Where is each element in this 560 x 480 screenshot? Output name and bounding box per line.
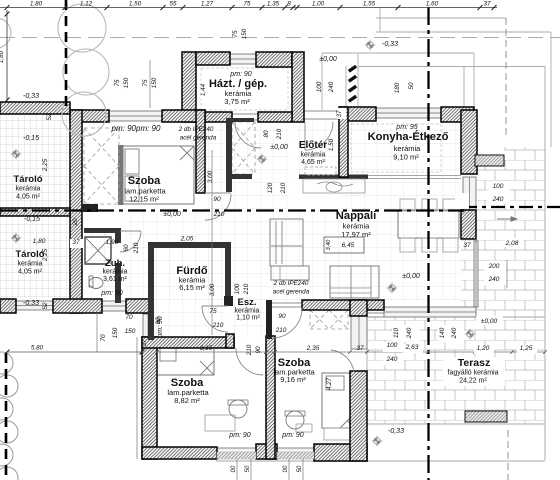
svg-text:37: 37: [72, 239, 80, 246]
svg-text:2 db IPE240: 2 db IPE240: [178, 126, 214, 133]
svg-text:100: 100: [316, 81, 323, 92]
svg-text:180: 180: [394, 82, 401, 93]
svg-text:Szoba: Szoba: [128, 175, 161, 187]
svg-text:±0,00: ±0,00: [319, 56, 337, 63]
svg-text:20: 20: [72, 218, 79, 227]
svg-text:70: 70: [125, 314, 133, 321]
svg-text:100: 100: [493, 183, 504, 190]
svg-text:1,90: 1,90: [106, 239, 119, 246]
svg-text:200: 200: [488, 263, 500, 270]
svg-text:1,80: 1,80: [33, 238, 46, 245]
svg-text:90: 90: [155, 317, 162, 325]
svg-text:75: 75: [243, 1, 251, 8]
svg-text:52: 52: [46, 113, 53, 121]
svg-text:80: 80: [263, 130, 270, 138]
svg-text:37: 37: [141, 339, 148, 347]
svg-text:Zuh.: Zuh.: [105, 258, 125, 269]
svg-text:6,15 m²: 6,15 m²: [179, 283, 205, 292]
svg-text:4,65 m²: 4,65 m²: [301, 159, 325, 166]
svg-text:90: 90: [213, 196, 221, 203]
svg-text:-0,33: -0,33: [388, 428, 404, 435]
svg-text:75: 75: [114, 79, 121, 87]
svg-text:kerámia: kerámia: [301, 152, 326, 159]
svg-text:55: 55: [169, 1, 177, 8]
svg-text:240: 240: [492, 196, 504, 203]
svg-text:fagyálló kerámia: fagyálló kerámia: [448, 370, 499, 377]
svg-text:90: 90: [255, 346, 262, 354]
svg-text:pm: 90: pm: 90: [281, 432, 304, 439]
svg-text:37: 37: [463, 242, 471, 249]
svg-text:37: 37: [483, 1, 491, 8]
svg-text:70: 70: [100, 334, 107, 342]
svg-text:210: 210: [276, 128, 283, 140]
svg-text:5,80: 5,80: [31, 345, 44, 352]
svg-text:2,25: 2,25: [42, 248, 49, 262]
svg-text:Tároló: Tároló: [13, 174, 42, 185]
svg-text:75: 75: [232, 30, 239, 38]
svg-text:75: 75: [142, 79, 149, 87]
svg-text:pm: 90pm: 90: pm: 90pm: 90: [111, 124, 161, 133]
svg-text:1,12: 1,12: [80, 1, 93, 8]
svg-text:-0,33: -0,33: [382, 41, 398, 48]
svg-text:3,00: 3,00: [207, 170, 214, 183]
svg-text:2 db IPE240: 2 db IPE240: [273, 280, 309, 287]
svg-text:150: 150: [125, 328, 136, 335]
svg-text:37: 37: [356, 345, 364, 352]
svg-text:150: 150: [112, 327, 119, 338]
svg-text:1,25: 1,25: [520, 345, 533, 352]
svg-text:pm: 90: pm: 90: [100, 290, 123, 297]
svg-text:pm: 90: pm: 90: [229, 71, 252, 78]
svg-text:1,50: 1,50: [328, 138, 335, 151]
svg-text:4,05 m²: 4,05 m²: [18, 269, 42, 276]
svg-text:3,61 m²: 3,61 m²: [103, 276, 127, 283]
svg-text:1,44: 1,44: [200, 83, 207, 96]
svg-text:140: 140: [439, 327, 446, 338]
svg-text:1,50: 1,50: [129, 1, 142, 8]
svg-text:17,97 m²: 17,97 m²: [341, 230, 371, 239]
svg-text:1,35: 1,35: [267, 1, 280, 8]
svg-text:1,10 m²: 1,10 m²: [236, 315, 260, 322]
svg-text:1,80: 1,80: [30, 1, 43, 8]
svg-text:90: 90: [278, 313, 286, 320]
svg-text:50: 50: [245, 465, 251, 472]
svg-text:210: 210: [133, 242, 140, 254]
svg-text:3,00: 3,00: [209, 283, 216, 296]
svg-text:24,22 m²: 24,22 m²: [459, 378, 487, 385]
svg-text:110: 110: [393, 327, 400, 338]
svg-text:2,05: 2,05: [180, 236, 194, 243]
svg-text:210: 210: [213, 211, 225, 218]
svg-text:1,00: 1,00: [312, 1, 325, 8]
svg-text:37: 37: [336, 110, 343, 118]
svg-text:kerámia: kerámia: [235, 308, 260, 315]
svg-text:210: 210: [243, 283, 250, 295]
svg-text:1,80: 1,80: [0, 50, 5, 63]
svg-text:00: 00: [283, 465, 289, 472]
svg-text:±0,00: ±0,00: [402, 273, 420, 280]
svg-text:240: 240: [488, 276, 500, 283]
svg-text:8: 8: [287, 1, 291, 8]
svg-text:240: 240: [451, 327, 458, 339]
svg-text:±0,00: ±0,00: [163, 211, 181, 218]
svg-text:-0,33: -0,33: [23, 93, 39, 100]
svg-text:2,08: 2,08: [505, 240, 519, 247]
svg-text:12,15 m²: 12,15 m²: [129, 195, 159, 204]
svg-text:1,20: 1,20: [477, 345, 490, 352]
svg-text:210: 210: [246, 344, 253, 356]
svg-text:100: 100: [387, 342, 398, 349]
svg-text:9,10 m²: 9,10 m²: [393, 153, 419, 162]
svg-text:acél gerenda: acél gerenda: [273, 289, 310, 296]
svg-text:2,25: 2,25: [42, 158, 49, 172]
svg-text:Terasz: Terasz: [458, 357, 491, 369]
svg-text:3,15: 3,15: [200, 345, 213, 352]
svg-text:2,35: 2,35: [306, 345, 320, 352]
svg-text:150: 150: [241, 28, 248, 39]
svg-text:120: 120: [267, 182, 274, 193]
svg-text:2,63: 2,63: [405, 344, 419, 351]
svg-text:kerámia: kerámia: [18, 261, 43, 268]
svg-text:Esz.: Esz.: [237, 297, 256, 308]
svg-text:acél gerenda: acél gerenda: [180, 135, 217, 142]
svg-text:100: 100: [234, 283, 241, 294]
svg-text:50: 50: [408, 82, 415, 90]
svg-text:210: 210: [280, 182, 287, 194]
svg-text:±0,00: ±0,00: [481, 318, 498, 325]
svg-text:Tároló: Tároló: [15, 249, 44, 260]
svg-text:210: 210: [212, 322, 224, 329]
svg-text:1,55: 1,55: [363, 1, 376, 8]
svg-text:240: 240: [406, 327, 413, 339]
svg-text:Nappali: Nappali: [336, 210, 376, 222]
svg-text:±0,00: ±0,00: [270, 144, 288, 151]
svg-text:240: 240: [386, 356, 398, 363]
svg-text:-0,33: -0,33: [23, 300, 39, 307]
svg-text:-0,15: -0,15: [24, 216, 40, 223]
svg-text:Konyha-Étkező: Konyha-Étkező: [368, 130, 449, 143]
svg-text:00: 00: [231, 465, 237, 472]
svg-text:1,60: 1,60: [426, 1, 439, 8]
svg-text:52: 52: [42, 302, 49, 310]
svg-text:kerámia: kerámia: [16, 186, 41, 193]
svg-text:50: 50: [297, 465, 303, 472]
svg-text:pm: 90: pm: 90: [228, 432, 251, 439]
svg-text:3,40: 3,40: [326, 239, 332, 251]
svg-text:-0,15: -0,15: [23, 135, 39, 142]
svg-text:6,45: 6,45: [342, 242, 355, 249]
svg-text:Előtér: Előtér: [299, 140, 327, 151]
svg-text:60: 60: [123, 244, 130, 252]
svg-text:9,16 m²: 9,16 m²: [280, 375, 306, 384]
svg-text:210: 210: [275, 327, 287, 334]
svg-text:3,75 m²: 3,75 m²: [224, 97, 250, 106]
svg-text:75: 75: [209, 308, 217, 315]
svg-text:pm: 95: pm: 95: [395, 124, 418, 131]
svg-text:4,27: 4,27: [326, 377, 333, 390]
svg-text:8,82 m²: 8,82 m²: [174, 396, 200, 405]
svg-text:150: 150: [123, 77, 130, 88]
svg-text:kerámia: kerámia: [103, 269, 128, 276]
svg-text:1,27: 1,27: [201, 1, 214, 8]
svg-text:150: 150: [151, 77, 158, 88]
svg-text:4,05 m²: 4,05 m²: [16, 194, 40, 201]
svg-text:240: 240: [328, 81, 335, 93]
